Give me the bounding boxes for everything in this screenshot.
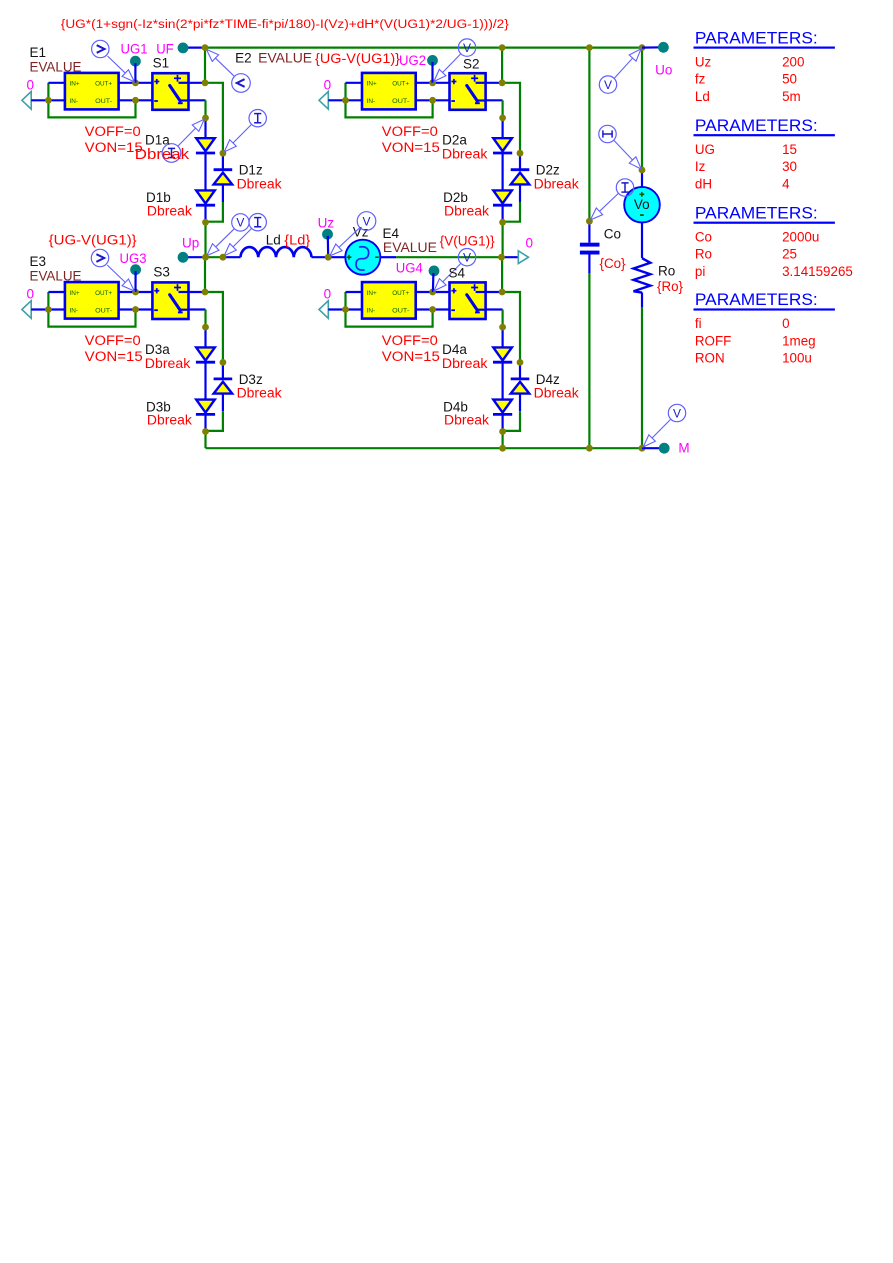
svg-text:D3a: D3a: [145, 342, 170, 357]
svg-text:IN+: IN+: [367, 290, 377, 297]
svg-text:S2: S2: [463, 57, 480, 72]
svg-text:OUT-: OUT-: [95, 98, 112, 105]
svg-text:OUT+: OUT+: [95, 290, 112, 297]
svg-text:VOFF=0: VOFF=0: [382, 124, 438, 139]
svg-text:pi: pi: [695, 264, 705, 279]
svg-text:E3: E3: [30, 254, 47, 269]
svg-text:OUT+: OUT+: [95, 81, 112, 88]
svg-text:200: 200: [782, 54, 804, 69]
svg-text:Uz: Uz: [695, 54, 712, 69]
svg-text:0: 0: [324, 287, 332, 302]
svg-text:Iz: Iz: [695, 159, 706, 174]
svg-text:VON=15: VON=15: [382, 140, 440, 155]
svg-text:fi: fi: [695, 316, 702, 331]
svg-text:Dbreak: Dbreak: [145, 356, 191, 371]
svg-text:{Ld}: {Ld}: [284, 233, 311, 248]
svg-text:IN+: IN+: [70, 81, 80, 88]
svg-text:M: M: [678, 441, 689, 456]
svg-text:PARAMETERS:: PARAMETERS:: [695, 117, 818, 135]
svg-text:{V(UG1)}: {V(UG1)}: [440, 234, 495, 249]
svg-text:{UG-V(UG1)}: {UG-V(UG1)}: [315, 51, 401, 66]
svg-text:Dbreak: Dbreak: [442, 147, 488, 162]
svg-text:PARAMETERS:: PARAMETERS:: [695, 204, 818, 222]
svg-text:V: V: [463, 41, 471, 55]
svg-text:Dbreak: Dbreak: [534, 176, 579, 191]
svg-text:Ld: Ld: [266, 233, 281, 248]
svg-text:D1a: D1a: [145, 133, 170, 148]
svg-text:IN-: IN-: [367, 98, 376, 105]
svg-text:OUT-: OUT-: [392, 98, 409, 105]
svg-text:OUT+: OUT+: [392, 290, 409, 297]
svg-text:EVALUE: EVALUE: [30, 60, 82, 75]
svg-text:Uz: Uz: [318, 216, 335, 231]
svg-text:VON=15: VON=15: [85, 349, 143, 364]
svg-text:UG1: UG1: [121, 42, 148, 57]
svg-text:IN+: IN+: [367, 81, 377, 88]
svg-text:dH: dH: [695, 176, 712, 191]
svg-text:VON=15: VON=15: [382, 349, 440, 364]
svg-text:Up: Up: [182, 236, 199, 251]
svg-text:ROFF: ROFF: [695, 333, 731, 348]
svg-text:Dbreak: Dbreak: [444, 413, 489, 428]
svg-text:VOFF=0: VOFF=0: [85, 333, 141, 348]
svg-text:Dbreak: Dbreak: [147, 413, 192, 428]
svg-text:Dbreak: Dbreak: [147, 204, 192, 219]
svg-text:S3: S3: [153, 265, 170, 280]
svg-text:Uo: Uo: [655, 63, 672, 78]
svg-text:V: V: [673, 406, 681, 420]
svg-text:E4: E4: [383, 226, 400, 241]
svg-text:D4a: D4a: [442, 342, 467, 357]
svg-text:EVALUE: EVALUE: [383, 240, 437, 255]
svg-text:E1: E1: [30, 45, 47, 60]
svg-text:S1: S1: [153, 56, 170, 71]
svg-text:OUT-: OUT-: [392, 307, 409, 314]
svg-text:Vo: Vo: [634, 197, 650, 212]
svg-text:0: 0: [324, 78, 332, 93]
svg-text:Dbreak: Dbreak: [237, 386, 282, 401]
svg-text:0: 0: [27, 78, 35, 93]
svg-text:Dbreak: Dbreak: [534, 386, 579, 401]
svg-text:IN-: IN-: [367, 307, 376, 314]
svg-text:2000u: 2000u: [782, 229, 819, 244]
svg-text:PARAMETERS:: PARAMETERS:: [695, 291, 818, 309]
svg-text:EVALUE: EVALUE: [258, 51, 312, 66]
svg-text:{UG-V(UG1)}: {UG-V(UG1)}: [49, 233, 138, 248]
svg-text:Ro: Ro: [695, 247, 712, 262]
svg-text:V: V: [362, 214, 370, 228]
svg-text:IN-: IN-: [70, 307, 79, 314]
svg-text:Co: Co: [695, 229, 712, 244]
svg-text:15: 15: [782, 142, 797, 157]
svg-text:V: V: [236, 216, 244, 230]
svg-text:UG: UG: [695, 142, 715, 157]
svg-text:D2a: D2a: [442, 133, 467, 148]
svg-text:50: 50: [782, 72, 797, 87]
svg-text:fz: fz: [695, 72, 706, 87]
svg-text:0: 0: [27, 287, 35, 302]
svg-text:Ld: Ld: [695, 89, 710, 104]
svg-text:OUT+: OUT+: [392, 81, 409, 88]
svg-text:V: V: [604, 78, 612, 92]
svg-text:{Ro}: {Ro}: [657, 279, 683, 294]
svg-text:OUT-: OUT-: [95, 307, 112, 314]
svg-text:IN+: IN+: [70, 290, 80, 297]
svg-text:3.14159265: 3.14159265: [782, 264, 853, 279]
svg-text:EVALUE: EVALUE: [30, 269, 82, 284]
svg-text:V: V: [463, 251, 471, 265]
svg-text:Ro: Ro: [658, 264, 675, 279]
svg-text:Dbreak: Dbreak: [135, 147, 190, 163]
svg-text:0: 0: [526, 236, 534, 251]
svg-text:{Co}: {Co}: [600, 256, 626, 271]
svg-text:30: 30: [782, 159, 797, 174]
svg-text:0: 0: [782, 316, 789, 331]
svg-text:PARAMETERS:: PARAMETERS:: [695, 29, 818, 47]
svg-text:1meg: 1meg: [782, 333, 816, 348]
svg-text:25: 25: [782, 247, 797, 262]
svg-text:UG3: UG3: [120, 251, 147, 266]
svg-text:Dbreak: Dbreak: [444, 204, 489, 219]
svg-text:UF: UF: [156, 42, 174, 57]
svg-text:IN-: IN-: [70, 98, 79, 105]
svg-text:UG2: UG2: [399, 53, 426, 68]
svg-text:VOFF=0: VOFF=0: [382, 333, 438, 348]
svg-text:4: 4: [782, 176, 790, 191]
svg-text:100u: 100u: [782, 351, 812, 366]
svg-text:RON: RON: [695, 351, 725, 366]
svg-text:S4: S4: [449, 266, 466, 281]
svg-text:{UG*(1+sgn(-Iz*sin(2*pi*fz*TIM: {UG*(1+sgn(-Iz*sin(2*pi*fz*TIME-fi*pi/18…: [61, 17, 509, 31]
svg-text:Co: Co: [604, 227, 621, 242]
svg-text:UG4: UG4: [396, 261, 423, 276]
svg-text:E2: E2: [235, 51, 252, 66]
svg-text:Dbreak: Dbreak: [237, 176, 282, 191]
svg-text:VOFF=0: VOFF=0: [85, 124, 141, 139]
svg-text:5m: 5m: [782, 89, 801, 104]
svg-text:Dbreak: Dbreak: [442, 356, 488, 371]
